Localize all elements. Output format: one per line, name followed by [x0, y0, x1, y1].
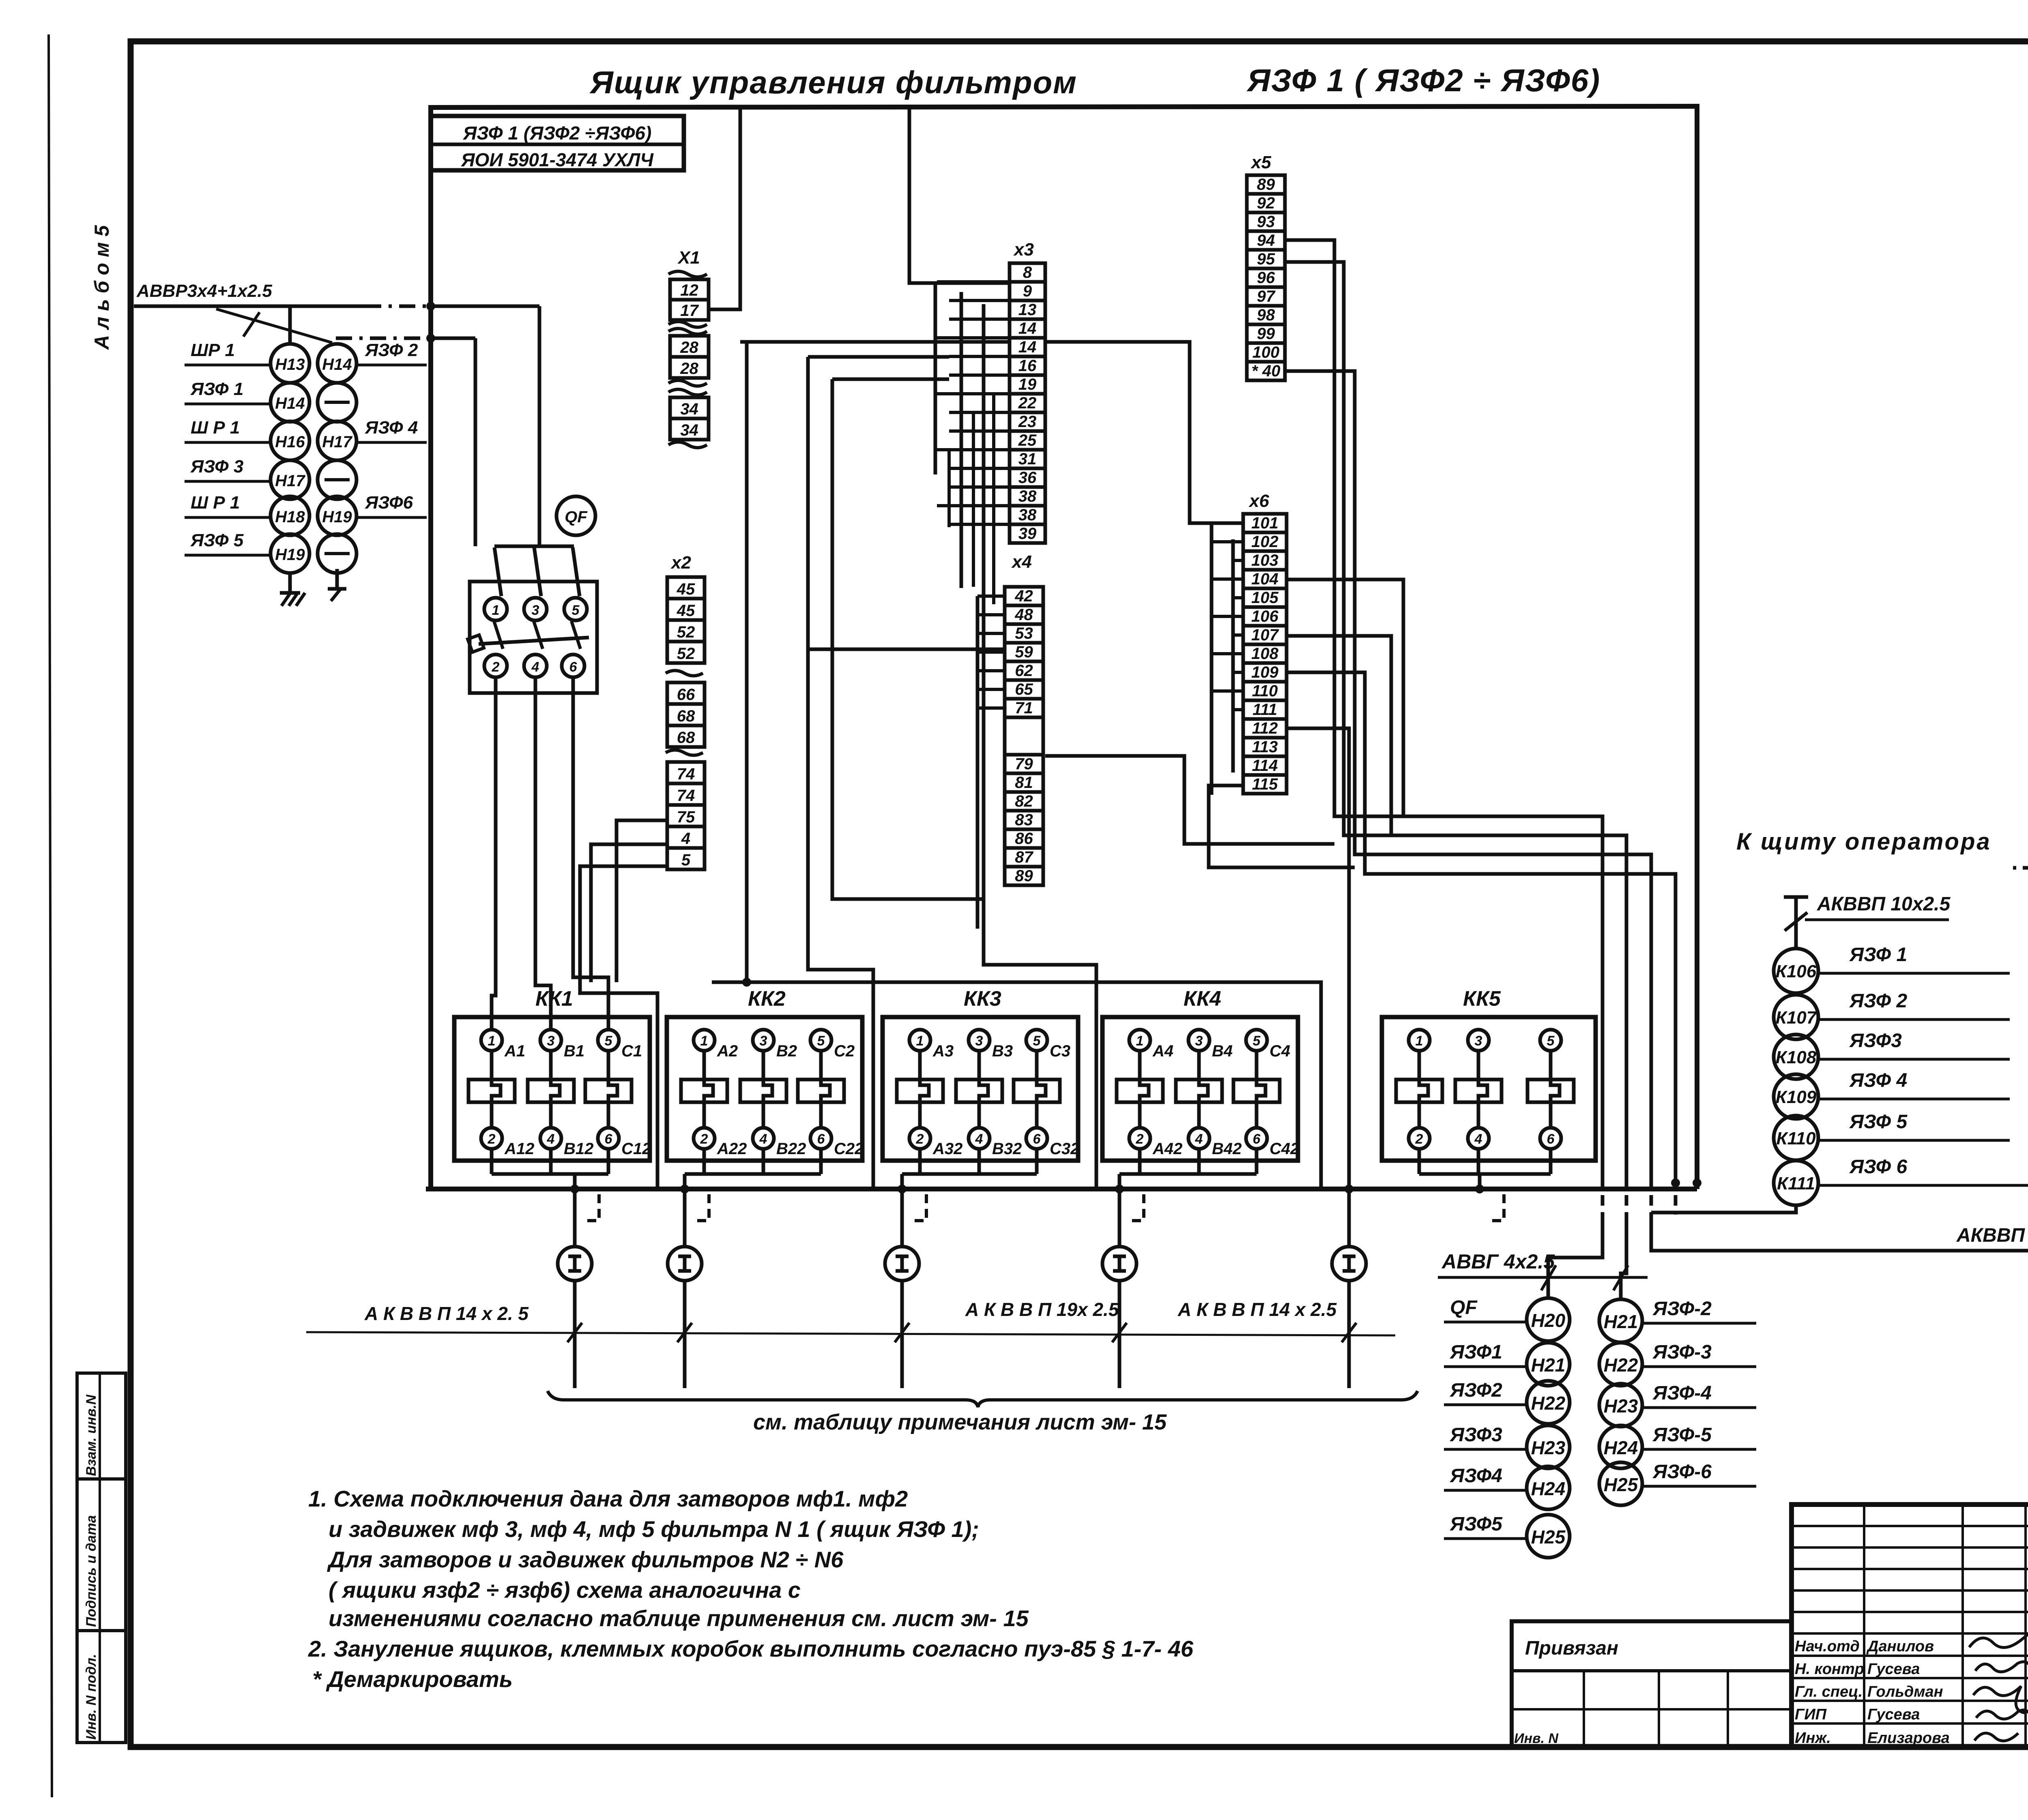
left stamp box Podpis i data — [77, 1479, 126, 1631]
thermal relay block КК1 — [454, 987, 651, 1174]
wire trunk T4 — [984, 304, 1096, 1189]
svg-text:Н23: Н23 — [1604, 1395, 1638, 1417]
wire H13 stem — [288, 307, 292, 344]
svg-text:КК5: КК5 — [1463, 987, 1501, 1011]
КК1 pole 3-4 — [528, 1030, 593, 1174]
КК4 pole 5-6 — [1233, 1030, 1299, 1174]
circuit breaker QF box — [470, 582, 597, 693]
svg-text:АВВГ 4х2.5: АВВГ 4х2.5 — [1441, 1250, 1555, 1273]
svg-text:ЯЗФ 1 (ЯЗФ2 ÷ЯЗФ6): ЯЗФ 1 (ЯЗФ2 ÷ЯЗФ6) — [463, 122, 652, 144]
svg-text:115: 115 — [1252, 775, 1278, 793]
svg-text:АВВР3х4+1х2.5: АВВР3х4+1х2.5 — [136, 281, 272, 301]
svg-text:ЯЗФ 5: ЯЗФ 5 — [1849, 1111, 1908, 1133]
КК3 pole 3-4 — [956, 1030, 1022, 1174]
svg-text:97: 97 — [1257, 288, 1276, 305]
annex box privyazan — [1512, 1621, 1792, 1748]
svg-text:Н21: Н21 — [1604, 1311, 1638, 1332]
svg-text:4: 4 — [547, 1131, 555, 1147]
svg-text:ЯЗФ3: ЯЗФ3 — [1849, 1030, 1902, 1052]
svg-text:38: 38 — [1018, 506, 1037, 524]
svg-text:В3: В3 — [992, 1042, 1013, 1060]
svg-text:2: 2 — [916, 1131, 924, 1147]
svg-text:22: 22 — [1018, 394, 1037, 412]
sheet outer edge left — [49, 34, 52, 1797]
wire tap KK4 to I4 — [1115, 1174, 1144, 1247]
svg-text:С4: С4 — [1270, 1042, 1290, 1060]
svg-text:1: 1 — [916, 1033, 924, 1049]
cable label AVVR — [134, 281, 539, 343]
svg-text:5: 5 — [572, 603, 580, 618]
wire dashdot H14 link — [336, 334, 475, 343]
svg-text:В22: В22 — [776, 1140, 806, 1158]
svg-text:4: 4 — [531, 659, 539, 675]
svg-text:Инж.: Инж. — [1795, 1730, 1831, 1747]
svg-text:ЯЗФ-4: ЯЗФ-4 — [1652, 1382, 1712, 1404]
КК2 pole 3-4 — [740, 1030, 806, 1174]
svg-text:КК1: КК1 — [535, 987, 573, 1011]
svg-text:53: 53 — [1015, 625, 1033, 642]
wire X5-40 run E3 — [1285, 371, 2028, 1251]
svg-text:28: 28 — [680, 339, 698, 356]
svg-text:25: 25 — [1018, 431, 1037, 449]
svg-text:52: 52 — [677, 645, 695, 663]
svg-text:16: 16 — [1018, 357, 1037, 375]
svg-text:ГИП: ГИП — [1795, 1706, 1827, 1723]
wire long to X3-14 — [740, 340, 1010, 344]
КК1 pole 1-2 — [468, 1030, 534, 1174]
svg-text:Н23: Н23 — [1531, 1437, 1566, 1458]
svg-text:КК4: КК4 — [1184, 987, 1221, 1011]
wire X5-94 run E1 — [1285, 240, 1603, 1298]
relay contact К107 — [1774, 990, 2010, 1039]
enclosure box YaZF1 — [426, 106, 1701, 1189]
svg-text:5: 5 — [1253, 1033, 1261, 1049]
svg-text:А К В В П 14 х 2. 5: А К В В П 14 х 2. 5 — [364, 1303, 529, 1324]
svg-text:Подпись и дата: Подпись и дата — [84, 1515, 99, 1627]
svg-text:1: 1 — [492, 603, 500, 618]
svg-text:А3: А3 — [932, 1042, 954, 1060]
svg-text:Н17: Н17 — [322, 433, 352, 451]
wire X5-95 run E2 — [1285, 262, 1626, 1299]
svg-text:79: 79 — [1015, 755, 1033, 773]
svg-text:4: 4 — [1195, 1131, 1203, 1147]
svg-text:ЯЗФ 1: ЯЗФ 1 — [190, 379, 243, 399]
svg-text:Н18: Н18 — [275, 508, 305, 526]
svg-text:ЯЗФ 5: ЯЗФ 5 — [190, 530, 244, 550]
drawing title — [589, 62, 1600, 100]
svg-text:8: 8 — [1023, 264, 1032, 281]
svg-text:Взам. инв.N: Взам. инв.N — [84, 1394, 99, 1476]
svg-text:АКВВП 4 х 2.5: АКВВП 4 х 2.5 — [1956, 1225, 2028, 1246]
svg-text:1: 1 — [488, 1033, 496, 1049]
svg-text:66: 66 — [677, 686, 695, 704]
QF pole terminals 1 3 5 — [484, 598, 587, 620]
svg-text:4: 4 — [975, 1131, 983, 1147]
svg-text:2: 2 — [700, 1131, 708, 1147]
svg-text:87: 87 — [1015, 848, 1033, 866]
wire X1-17 link — [709, 107, 740, 309]
svg-text:ЯЗФ4: ЯЗФ4 — [1449, 1465, 1502, 1487]
svg-text:С1: С1 — [621, 1042, 642, 1060]
terminal block X5 — [1247, 152, 1285, 380]
svg-text:6: 6 — [1033, 1131, 1041, 1147]
svg-text:23: 23 — [1018, 413, 1037, 431]
signatures scribble — [1969, 1633, 2028, 1741]
svg-text:А л ь б о м 5: А л ь б о м 5 — [90, 225, 113, 350]
cable AKVVP10 marker — [1784, 893, 1951, 949]
current transformer I1 — [558, 1247, 592, 1281]
svg-text:Привязан: Привязан — [1525, 1638, 1618, 1659]
wire X2-75 exit — [617, 820, 667, 982]
ground H14 column — [328, 569, 346, 601]
svg-text:109: 109 — [1251, 663, 1278, 681]
current transformer I4 — [1102, 1247, 1136, 1281]
svg-text:С3: С3 — [1050, 1042, 1070, 1060]
svg-text:Для затворов и задвижек ф: Для затворов и задвижек фильтров N2 ÷ N6 — [327, 1547, 844, 1572]
wire trunk T3 — [832, 379, 983, 899]
svg-text:С12: С12 — [621, 1140, 651, 1158]
svg-text:ЯЗФ 1: ЯЗФ 1 — [1849, 944, 1907, 966]
КК2 pole 5-6 — [798, 1030, 864, 1174]
svg-text:ЯЗФ-6: ЯЗФ-6 — [1652, 1461, 1712, 1483]
svg-text:Н25: Н25 — [1531, 1526, 1566, 1547]
circuit breaker QF label — [556, 496, 595, 535]
current transformer I5 — [1332, 1247, 1366, 1281]
wire tap KK1 to I1 — [570, 1174, 599, 1247]
svg-text:ЯЗФ2: ЯЗФ2 — [1449, 1380, 1502, 1401]
wire X6-107 exit right — [1287, 636, 1391, 835]
svg-text:102: 102 — [1251, 533, 1278, 551]
relay contact К108 — [1774, 1030, 2010, 1079]
КК4 collector wire — [1119, 1172, 1257, 1176]
wire QF output B — [535, 676, 551, 1030]
svg-text:ЯЗФ-2: ЯЗФ-2 — [1652, 1298, 1712, 1320]
svg-text:5: 5 — [605, 1033, 613, 1049]
svg-text:Н17: Н17 — [275, 472, 305, 490]
svg-text:31: 31 — [1018, 450, 1037, 468]
svg-text:и задвижек мф 3, мф 4, мф 5: и задвижек мф 3, мф 4, мф 5 фильтра N 1 … — [329, 1516, 979, 1542]
svg-text:А32: А32 — [932, 1140, 962, 1158]
svg-text:3: 3 — [975, 1033, 983, 1049]
svg-text:Инв. N подл.: Инв. N подл. — [84, 1654, 99, 1740]
svg-text:81: 81 — [1015, 774, 1033, 792]
svg-text:КК3: КК3 — [964, 987, 1001, 1011]
svg-text:Н25: Н25 — [1604, 1474, 1639, 1495]
svg-text:74: 74 — [677, 787, 695, 805]
QF feed fan — [494, 546, 580, 596]
svg-text:86: 86 — [1015, 830, 1033, 848]
QF pole terminals 2 4 6 — [484, 655, 584, 677]
wire X4-59 long link — [808, 648, 1005, 651]
КК4 pole 1-2 — [1117, 1030, 1182, 1174]
brace see table note — [548, 1391, 1418, 1434]
svg-text:х4: х4 — [1011, 552, 1032, 572]
terminal block X6 — [1243, 491, 1287, 794]
svg-text:А12: А12 — [504, 1140, 534, 1158]
КК2 pole 1-2 — [681, 1030, 747, 1174]
svg-text:Н22: Н22 — [1604, 1354, 1638, 1376]
svg-text:К111: К111 — [1777, 1174, 1815, 1193]
cable line bottom left — [306, 1332, 1395, 1335]
svg-text:К107: К107 — [1776, 1008, 1817, 1028]
svg-text:х3: х3 — [1013, 240, 1034, 260]
svg-text:17: 17 — [680, 302, 699, 320]
wire I2 down — [677, 1281, 692, 1388]
svg-text:ЯЗФ-5: ЯЗФ-5 — [1652, 1424, 1712, 1446]
svg-text:ЯЗФ 3: ЯЗФ 3 — [190, 457, 243, 476]
svg-text:QF: QF — [1450, 1297, 1478, 1318]
svg-text:Ш Р 1: Ш Р 1 — [191, 418, 240, 438]
svg-text:112: 112 — [1252, 719, 1278, 737]
cable label AKVVP19 mid — [965, 1299, 1119, 1320]
svg-text:В42: В42 — [1212, 1140, 1242, 1158]
svg-text:42: 42 — [1014, 587, 1033, 605]
thermal relay block КК4 — [1102, 987, 1299, 1174]
svg-text:36: 36 — [1018, 469, 1037, 487]
svg-text:5: 5 — [817, 1033, 825, 1049]
КК4 pole 3-4 — [1176, 1030, 1242, 1174]
wire tap KK2 to I2 — [680, 1174, 709, 1247]
КК2 collector wire — [685, 1172, 821, 1176]
svg-text:6: 6 — [817, 1131, 825, 1147]
album label — [90, 225, 113, 350]
КК5 pole 5-6 — [1527, 1030, 1574, 1174]
svg-text:С2: С2 — [834, 1042, 855, 1060]
svg-text:Данилов: Данилов — [1866, 1638, 1934, 1655]
svg-text:3: 3 — [760, 1033, 767, 1049]
svg-text:107: 107 — [1251, 626, 1279, 644]
thermal relay block КК2 — [667, 987, 864, 1174]
svg-text:103: 103 — [1251, 552, 1278, 569]
svg-text:1: 1 — [700, 1033, 708, 1049]
svg-text:Н13: Н13 — [275, 356, 305, 373]
svg-text:89: 89 — [1015, 867, 1033, 885]
ground H13 column — [280, 573, 305, 606]
relay contact К109 — [1774, 1070, 2010, 1119]
svg-text:68: 68 — [677, 729, 695, 747]
svg-text:ЯЗФ 4: ЯЗФ 4 — [1849, 1070, 1907, 1091]
svg-text:см. таблицу примечания л: см. таблицу примечания лист эм- 15 — [753, 1410, 1167, 1434]
svg-text:В4: В4 — [1212, 1042, 1233, 1060]
svg-text:3: 3 — [532, 603, 539, 618]
svg-text:ЯЗФ5: ЯЗФ5 — [1449, 1513, 1503, 1535]
svg-text:6: 6 — [1547, 1131, 1555, 1147]
wire I3 down — [895, 1281, 909, 1388]
svg-text:93: 93 — [1257, 213, 1275, 231]
svg-text:В12: В12 — [564, 1140, 593, 1158]
svg-text:С22: С22 — [834, 1140, 864, 1158]
wire I5 down — [1342, 1281, 1356, 1388]
svg-text:95: 95 — [1257, 250, 1275, 268]
svg-text:74: 74 — [677, 765, 695, 783]
notes — [308, 1486, 1194, 1692]
wire X6-104 exit right — [1287, 579, 1403, 816]
svg-text:106: 106 — [1251, 607, 1278, 625]
svg-text:62: 62 — [1015, 662, 1033, 680]
КК1 collector wire — [492, 1172, 608, 1176]
svg-text:К109: К109 — [1776, 1087, 1817, 1107]
svg-text:Гусева: Гусева — [1867, 1706, 1920, 1723]
svg-text:96: 96 — [1257, 269, 1275, 287]
svg-text:108: 108 — [1251, 645, 1278, 663]
svg-text:99: 99 — [1257, 325, 1275, 343]
svg-text:ЯОИ 5901-3474 УХЛЧ: ЯОИ 5901-3474 УХЛЧ — [461, 149, 654, 170]
svg-text:А4: А4 — [1152, 1042, 1173, 1060]
svg-text:83: 83 — [1015, 811, 1033, 829]
svg-text:х2: х2 — [670, 553, 691, 573]
svg-text:Инв. N: Инв. N — [1514, 1731, 1559, 1746]
svg-text:9: 9 — [1023, 282, 1032, 300]
wire trunk T2 — [808, 357, 949, 1189]
svg-text:4: 4 — [1474, 1131, 1482, 1147]
svg-text:К110: К110 — [1776, 1129, 1816, 1148]
terminal block X2 — [666, 553, 705, 869]
cable label AKVVP14 left — [364, 1303, 529, 1324]
svg-text:5: 5 — [1033, 1033, 1041, 1049]
svg-text:* Демаркировать: * Демаркировать — [312, 1666, 513, 1692]
svg-text:С42: С42 — [1270, 1140, 1299, 1158]
svg-text:52: 52 — [677, 623, 695, 641]
svg-text:111: 111 — [1252, 701, 1277, 719]
wire X2-4 exit — [591, 844, 667, 982]
svg-text:ШР 1: ШР 1 — [191, 340, 235, 360]
svg-text:В32: В32 — [992, 1140, 1022, 1158]
QF contact bar — [468, 621, 589, 652]
wire tap KK5 — [1475, 1174, 1504, 1221]
svg-text:Елизарова: Елизарова — [1867, 1730, 1950, 1747]
wire X6-114 exit — [1209, 786, 1355, 867]
svg-text:А2: А2 — [717, 1042, 738, 1060]
svg-text:92: 92 — [1257, 194, 1275, 212]
svg-text:А К В В П 14 х 2.5: А К В В П 14 х 2.5 — [1177, 1299, 1337, 1320]
svg-text:А42: А42 — [1152, 1140, 1182, 1158]
svg-text:В1: В1 — [564, 1042, 584, 1060]
svg-text:С32: С32 — [1050, 1140, 1079, 1158]
svg-text:12: 12 — [680, 281, 698, 299]
lamp column H20-H25 — [1444, 1297, 1570, 1558]
svg-text:101: 101 — [1251, 514, 1278, 532]
svg-text:К106: К106 — [1776, 962, 1817, 981]
svg-text:ЯЗФ3: ЯЗФ3 — [1449, 1424, 1502, 1446]
svg-text:48: 48 — [1014, 606, 1033, 624]
КК5 pole 3-4 — [1455, 1030, 1502, 1174]
svg-text:38: 38 — [1018, 487, 1037, 505]
cable label AKVVP4 bottom — [1956, 1225, 2028, 1246]
svg-text:Гусева: Гусева — [1867, 1661, 1920, 1678]
wire cross bus KK row — [712, 982, 1321, 1189]
svg-text:45: 45 — [677, 580, 695, 598]
svg-text:89: 89 — [1257, 176, 1275, 193]
wire trunk T1 — [742, 342, 751, 987]
terminal block X3 — [1010, 240, 1045, 543]
svg-text:Н14: Н14 — [322, 356, 352, 373]
svg-text:75: 75 — [677, 808, 695, 826]
svg-text:5: 5 — [1547, 1033, 1555, 1049]
КК5 collector wire — [1419, 1172, 1551, 1176]
svg-text:94: 94 — [1257, 232, 1275, 249]
indicator column H14 — [318, 340, 427, 573]
svg-text:110: 110 — [1252, 682, 1278, 700]
svg-text:100: 100 — [1252, 343, 1280, 361]
svg-text:6: 6 — [569, 659, 578, 675]
relay contact К106 — [1774, 944, 2010, 993]
svg-text:6: 6 — [605, 1131, 613, 1147]
svg-text:А К В В П 19х 2.5: А К В В П 19х 2.5 — [965, 1299, 1119, 1320]
svg-text:А22: А22 — [717, 1140, 747, 1158]
terminal X3 left fan — [935, 282, 1010, 604]
svg-text:ЯЗФ 2: ЯЗФ 2 — [365, 340, 418, 360]
terminal assembly KK U615 — [2011, 825, 2028, 1009]
svg-text:59: 59 — [1015, 643, 1033, 661]
svg-text:71: 71 — [1015, 699, 1033, 717]
svg-text:13: 13 — [1018, 301, 1037, 319]
svg-text:14: 14 — [1018, 320, 1037, 337]
svg-text:6: 6 — [1253, 1131, 1261, 1147]
svg-text:Нач.отд: Нач.отд — [1795, 1638, 1860, 1655]
svg-text:Н16: Н16 — [275, 433, 305, 451]
svg-text:Н19: Н19 — [322, 508, 352, 526]
wire X6-113 to I5 — [1287, 728, 1353, 1247]
svg-text:1: 1 — [1416, 1033, 1423, 1049]
wire QF output A — [492, 677, 496, 1030]
svg-text:2: 2 — [492, 659, 500, 675]
svg-text:105: 105 — [1251, 589, 1278, 607]
svg-text:1: 1 — [1136, 1033, 1144, 1049]
current transformer feeds — [0, 0, 0, 0]
svg-text:Ш Р 1: Ш Р 1 — [191, 493, 240, 513]
thermal relay block КК5 — [1382, 987, 1596, 1174]
svg-text:Н. контр: Н. контр — [1795, 1661, 1864, 1678]
wire I4 down — [1112, 1281, 1127, 1388]
svg-text:* 40: * 40 — [1251, 362, 1280, 380]
cable label AKVVP14 right — [1177, 1299, 1337, 1320]
wire top drop to X3-9 — [909, 107, 1010, 283]
wire X2-5 exit — [580, 866, 667, 1189]
svg-text:19: 19 — [1018, 376, 1037, 393]
svg-text:4: 4 — [759, 1131, 767, 1147]
wire QF feed drop — [538, 306, 541, 546]
svg-text:Гл. спец.: Гл. спец. — [1795, 1683, 1863, 1700]
current transformer I2 — [668, 1247, 702, 1281]
svg-text:( ящики язф2 ÷ язф6) схем: ( ящики язф2 ÷ язф6) схема аналогична с — [329, 1577, 801, 1603]
svg-text:Гольдман: Гольдман — [1867, 1683, 1943, 1700]
svg-text:Н24: Н24 — [1531, 1478, 1565, 1499]
terminal X4 left fan — [977, 596, 1005, 929]
svg-text:ЯЗФ 2: ЯЗФ 2 — [1849, 990, 1907, 1012]
wire X3-38 exit — [1045, 756, 1334, 844]
indicator column H13 — [185, 340, 309, 573]
svg-text:114: 114 — [1252, 757, 1278, 775]
wire I1 down — [567, 1281, 582, 1388]
svg-text:изменениями согласно таб: изменениями согласно таблице применения … — [329, 1605, 1029, 1631]
svg-text:К108: К108 — [1776, 1047, 1817, 1067]
svg-text:ЯЗФ 4: ЯЗФ 4 — [365, 418, 418, 438]
svg-text:4: 4 — [681, 830, 690, 848]
svg-text:3: 3 — [547, 1033, 555, 1049]
svg-text:68: 68 — [677, 707, 695, 725]
wire tap KK3 to I3 — [898, 1174, 926, 1247]
svg-text:Х1: Х1 — [677, 248, 700, 268]
svg-text:65: 65 — [1015, 680, 1033, 698]
svg-text:113: 113 — [1252, 738, 1278, 756]
svg-text:К щиту оператора: К щиту оператора — [1736, 828, 1991, 855]
left stamp box Vzam inv N — [77, 1373, 126, 1479]
svg-text:14: 14 — [1018, 338, 1037, 356]
svg-text:Н24: Н24 — [1604, 1437, 1638, 1458]
svg-text:Н21: Н21 — [1531, 1354, 1565, 1376]
КК3 pole 5-6 — [1014, 1030, 1079, 1174]
svg-text:39: 39 — [1018, 525, 1037, 543]
